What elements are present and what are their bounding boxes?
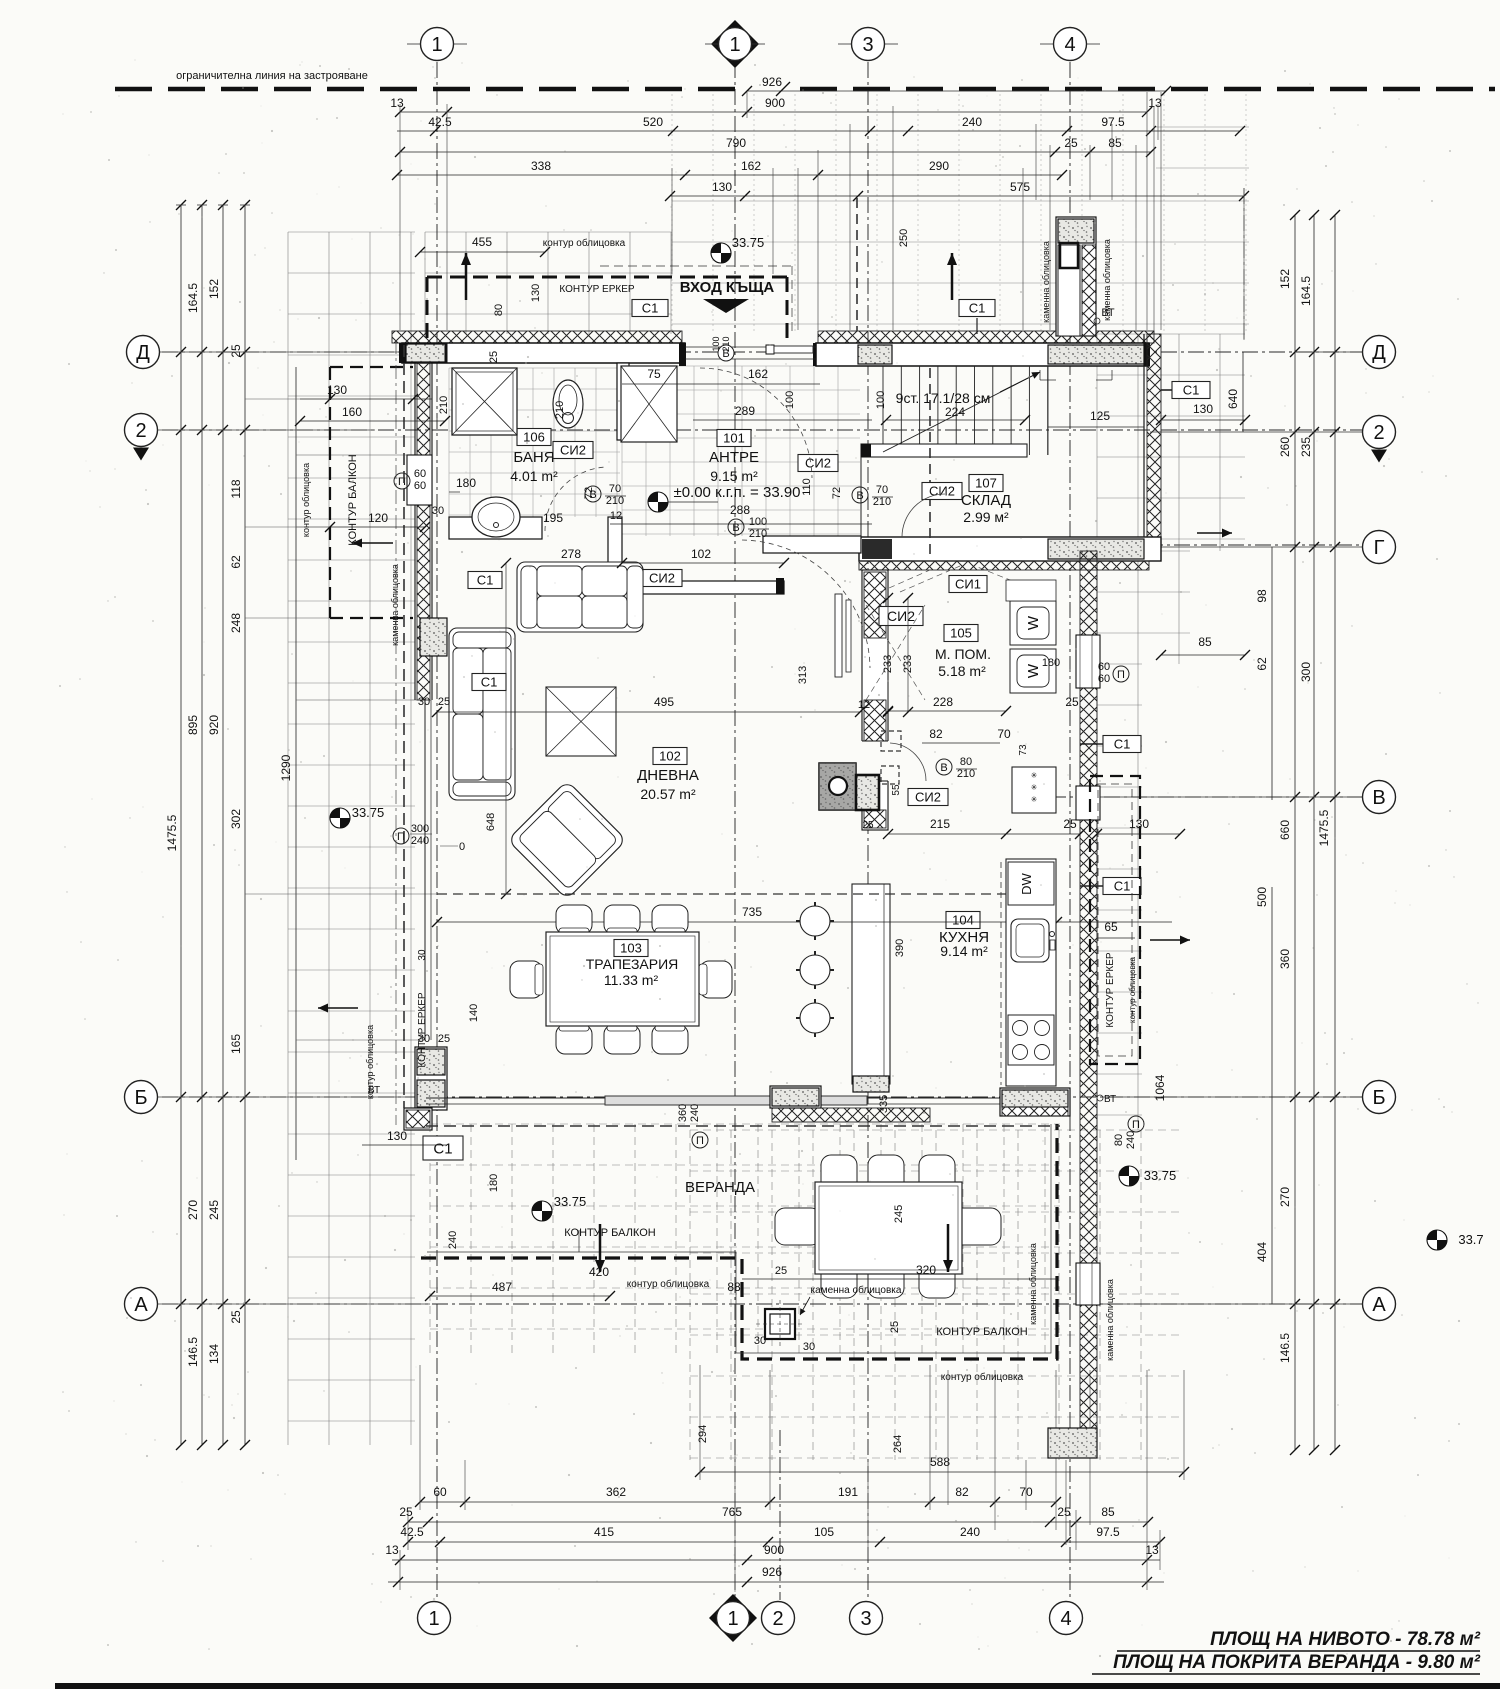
svg-text:240: 240 [960, 1525, 980, 1539]
svg-text:А: А [1372, 1294, 1386, 1316]
svg-text:2.99 м²: 2.99 м² [963, 509, 1009, 525]
svg-text:895: 895 [186, 715, 200, 735]
svg-text:100: 100 [749, 516, 767, 528]
svg-text:25: 25 [488, 351, 500, 363]
svg-text:648: 648 [485, 813, 497, 831]
svg-text:каменна облицовка: каменна облицовка [1105, 1279, 1115, 1361]
svg-text:338: 338 [531, 159, 551, 173]
svg-text:335: 335 [878, 1095, 890, 1113]
svg-text:25: 25 [775, 1265, 787, 1277]
svg-text:300: 300 [411, 823, 429, 835]
svg-text:4.01 m²: 4.01 m² [510, 468, 558, 484]
svg-text:101: 101 [723, 431, 745, 446]
svg-text:415: 415 [594, 1525, 614, 1539]
svg-text:140: 140 [468, 1004, 480, 1022]
svg-text:DW: DW [1019, 872, 1034, 894]
svg-text:302: 302 [229, 809, 243, 829]
svg-text:210: 210 [438, 396, 450, 414]
svg-text:В: В [940, 762, 947, 774]
svg-text:228: 228 [933, 695, 953, 709]
svg-text:240: 240 [447, 1231, 459, 1249]
svg-text:C1: C1 [433, 1140, 452, 1157]
svg-text:C1: C1 [642, 301, 659, 316]
svg-text:118: 118 [229, 479, 243, 498]
svg-text:270: 270 [186, 1200, 200, 1220]
svg-text:80: 80 [960, 756, 972, 768]
svg-text:70: 70 [997, 727, 1011, 741]
svg-text:233: 233 [882, 655, 894, 673]
svg-text:9.14 m²: 9.14 m² [940, 943, 988, 959]
svg-text:42.5: 42.5 [400, 1525, 424, 1539]
svg-text:П: П [1132, 1119, 1140, 1131]
svg-text:300: 300 [1299, 662, 1313, 682]
svg-text:500: 500 [1255, 887, 1269, 907]
svg-text:каменна облицовка: каменна облицовка [1028, 1243, 1038, 1325]
svg-text:60: 60 [433, 1485, 447, 1499]
svg-text:60: 60 [1098, 673, 1110, 685]
svg-text:102: 102 [659, 749, 681, 764]
svg-text:✳: ✳ [1031, 783, 1038, 792]
svg-text:80: 80 [493, 304, 505, 316]
svg-text:88: 88 [727, 1280, 741, 1294]
svg-text:240: 240 [962, 115, 982, 129]
svg-text:КОНТУР БАЛКОН: КОНТУР БАЛКОН [347, 454, 359, 545]
svg-text:1: 1 [729, 34, 740, 56]
svg-text:4: 4 [1064, 34, 1075, 56]
svg-text:60: 60 [414, 468, 426, 480]
svg-text:520: 520 [643, 115, 663, 129]
svg-text:30: 30 [754, 1335, 766, 1347]
svg-text:СИ2: СИ2 [929, 484, 955, 499]
svg-text:103: 103 [620, 941, 642, 956]
svg-text:62: 62 [1255, 657, 1269, 671]
svg-text:ВХОД КЪЩА: ВХОД КЪЩА [680, 279, 775, 296]
svg-text:210: 210 [721, 336, 731, 351]
svg-text:25: 25 [889, 1321, 901, 1333]
svg-text:33.75: 33.75 [554, 1194, 587, 1209]
svg-text:100: 100 [875, 391, 887, 409]
svg-text:210: 210 [873, 496, 891, 508]
svg-text:660: 660 [1278, 820, 1292, 840]
svg-text:Б: Б [134, 1087, 147, 1109]
svg-text:25: 25 [438, 696, 450, 708]
svg-text:224: 224 [945, 405, 965, 419]
svg-text:404: 404 [1255, 1242, 1269, 1262]
svg-text:30: 30 [417, 949, 428, 961]
svg-text:1475.5: 1475.5 [1317, 809, 1331, 846]
svg-text:Г: Г [1374, 537, 1385, 559]
svg-text:100: 100 [711, 336, 721, 351]
svg-text:210: 210 [749, 528, 767, 540]
svg-text:25: 25 [1064, 136, 1078, 150]
svg-text:125: 125 [1090, 409, 1110, 423]
svg-text:640: 640 [1226, 389, 1240, 409]
svg-text:926: 926 [762, 75, 782, 89]
svg-text:72: 72 [831, 487, 843, 499]
svg-text:1: 1 [727, 1608, 738, 1630]
svg-text:30: 30 [432, 505, 444, 517]
svg-text:487: 487 [492, 1280, 512, 1294]
svg-text:313: 313 [797, 666, 809, 684]
svg-text:75: 75 [647, 367, 661, 381]
svg-text:C1: C1 [1183, 383, 1200, 398]
svg-text:каменна облицовка: каменна облицовка [390, 564, 400, 646]
svg-text:СКЛАД: СКЛАД [961, 492, 1011, 509]
svg-text:✳: ✳ [1031, 771, 1038, 780]
svg-text:130: 130 [712, 180, 732, 194]
svg-text:362: 362 [606, 1485, 626, 1499]
svg-text:289: 289 [735, 404, 755, 418]
svg-text:контур облицовка: контур облицовка [941, 1371, 1024, 1383]
svg-text:60: 60 [414, 480, 426, 492]
svg-text:C1: C1 [1114, 879, 1131, 894]
svg-text:25: 25 [399, 1505, 413, 1519]
svg-text:25: 25 [438, 1033, 450, 1045]
svg-text:588: 588 [930, 1455, 950, 1469]
svg-text:11.33 m²: 11.33 m² [604, 972, 659, 988]
svg-text:2: 2 [135, 420, 146, 442]
svg-text:12: 12 [858, 699, 870, 711]
svg-text:210: 210 [606, 495, 624, 507]
svg-text:82: 82 [955, 1485, 969, 1499]
svg-text:360: 360 [1278, 949, 1292, 969]
svg-text:СИ2: СИ2 [805, 456, 831, 471]
svg-text:КОНТУР БАЛКОН: КОНТУР БАЛКОН [936, 1326, 1027, 1338]
svg-text:70: 70 [609, 483, 621, 495]
svg-text:900: 900 [765, 96, 785, 110]
svg-text:120: 120 [368, 511, 388, 525]
svg-text:926: 926 [762, 1565, 782, 1579]
svg-text:ВТ: ВТ [1104, 1094, 1116, 1105]
svg-text:85: 85 [1108, 136, 1122, 150]
svg-text:контур облицовка: контур облицовка [543, 237, 626, 249]
svg-text:АНТРЕ: АНТРЕ [709, 449, 759, 466]
svg-text:195: 195 [543, 511, 563, 525]
svg-text:1: 1 [428, 1608, 439, 1630]
svg-text:БАНЯ: БАНЯ [513, 449, 554, 466]
svg-text:КОНТУР ЕРКЕР: КОНТУР ЕРКЕР [1105, 952, 1116, 1027]
svg-text:104: 104 [952, 913, 974, 928]
svg-text:164.5: 164.5 [1299, 276, 1313, 306]
svg-text:СИ2: СИ2 [887, 608, 915, 624]
svg-text:790: 790 [726, 136, 746, 150]
svg-text:82: 82 [929, 727, 943, 741]
svg-text:210: 210 [957, 768, 975, 780]
svg-text:97.5: 97.5 [1096, 1525, 1120, 1539]
svg-text:20.57 m²: 20.57 m² [640, 786, 696, 802]
svg-text:СИ1: СИ1 [955, 577, 981, 592]
svg-text:130: 130 [530, 284, 542, 302]
svg-text:КОНТУР ЕРКЕР: КОНТУР ЕРКЕР [417, 992, 428, 1067]
svg-text:98: 98 [1255, 589, 1269, 603]
svg-text:W: W [1025, 663, 1042, 678]
svg-text:13: 13 [1145, 1543, 1159, 1557]
svg-text:3: 3 [862, 34, 873, 56]
svg-text:264: 264 [892, 1435, 904, 1453]
svg-text:C1: C1 [969, 301, 986, 316]
svg-text:270: 270 [1278, 1187, 1292, 1207]
svg-text:73: 73 [1018, 744, 1029, 756]
svg-text:100: 100 [784, 391, 796, 409]
svg-text:146.5: 146.5 [186, 1337, 200, 1367]
svg-text:165: 165 [229, 1034, 243, 1054]
svg-text:294: 294 [697, 1425, 709, 1443]
svg-text:260: 260 [1278, 437, 1292, 457]
svg-text:60: 60 [1098, 661, 1110, 673]
svg-text:110: 110 [801, 478, 813, 496]
svg-text:25: 25 [1063, 817, 1077, 831]
svg-text:13: 13 [390, 96, 404, 110]
svg-text:5.18 m²: 5.18 m² [938, 663, 986, 679]
svg-text:П: П [1117, 669, 1125, 681]
svg-text:130: 130 [327, 383, 347, 397]
svg-text:4: 4 [1060, 1608, 1071, 1630]
svg-text:164.5: 164.5 [186, 283, 200, 313]
svg-text:СИ2: СИ2 [649, 571, 675, 586]
svg-text:240: 240 [689, 1104, 701, 1122]
svg-text:210: 210 [554, 401, 566, 419]
svg-text:162: 162 [741, 159, 761, 173]
svg-text:495: 495 [654, 695, 674, 709]
svg-text:162: 162 [748, 367, 768, 381]
svg-text:920: 920 [207, 715, 221, 735]
svg-text:9.15 m²: 9.15 m² [710, 468, 758, 484]
svg-text:130: 130 [387, 1129, 407, 1143]
svg-text:КОНТУР ЕРКЕР: КОНТУР ЕРКЕР [559, 284, 634, 295]
svg-text:235: 235 [1299, 437, 1313, 457]
svg-text:160: 160 [342, 405, 362, 419]
svg-text:СИ2: СИ2 [560, 443, 586, 458]
svg-text:1: 1 [431, 34, 442, 56]
svg-text:0: 0 [459, 841, 465, 853]
svg-text:180: 180 [488, 1174, 500, 1192]
svg-text:215: 215 [930, 817, 950, 831]
svg-text:245: 245 [893, 1205, 905, 1223]
svg-text:2: 2 [772, 1608, 783, 1630]
svg-text:СИ2: СИ2 [915, 790, 941, 805]
svg-text:2: 2 [1373, 422, 1384, 444]
svg-text:33.75: 33.75 [352, 805, 385, 820]
svg-text:288: 288 [730, 503, 750, 517]
svg-text:152: 152 [207, 279, 221, 299]
svg-text:33.7: 33.7 [1458, 1232, 1483, 1247]
svg-text:85: 85 [1101, 1505, 1115, 1519]
svg-text:55: 55 [891, 784, 902, 796]
svg-text:ограничителна линия на застроя: ограничителна линия на застрояване [176, 70, 368, 82]
svg-text:320: 320 [916, 1263, 936, 1277]
svg-text:900: 900 [764, 1543, 784, 1557]
svg-text:А: А [134, 1294, 148, 1316]
svg-text:233: 233 [902, 655, 914, 673]
svg-text:420: 420 [589, 1265, 609, 1279]
svg-text:ПЛОЩ НА ПОКРИТА ВЕРАНДА - 9.80: ПЛОЩ НА ПОКРИТА ВЕРАНДА - 9.80 м² [1113, 1652, 1481, 1673]
svg-text:33.75: 33.75 [732, 235, 765, 250]
svg-text:180: 180 [1042, 657, 1060, 669]
svg-text:107: 107 [975, 476, 997, 491]
svg-text:Б: Б [1372, 1087, 1385, 1109]
svg-text:735: 735 [742, 905, 762, 919]
svg-text:C1: C1 [477, 573, 494, 588]
svg-text:W: W [1025, 615, 1042, 630]
svg-text:контур облицовка: контур облицовка [627, 1278, 710, 1290]
svg-text:каменна облицовка: каменна облицовка [811, 1284, 902, 1296]
svg-text:248: 248 [229, 613, 243, 633]
svg-text:290: 290 [929, 159, 949, 173]
svg-text:180: 180 [456, 476, 476, 490]
svg-text:191: 191 [838, 1485, 858, 1499]
svg-text:130: 130 [1193, 402, 1213, 416]
svg-text:102: 102 [691, 547, 711, 561]
svg-text:65: 65 [1104, 920, 1118, 934]
svg-text:В: В [1372, 787, 1385, 809]
svg-text:ТРАПЕЗАРИЯ: ТРАПЕЗАРИЯ [586, 956, 679, 972]
svg-text:25: 25 [229, 1310, 243, 1324]
svg-text:C1: C1 [1114, 737, 1131, 752]
svg-text:240: 240 [411, 835, 429, 847]
svg-text:1290: 1290 [279, 754, 293, 781]
svg-text:245: 245 [207, 1200, 221, 1220]
svg-text:9ст. 17.1/28 см: 9ст. 17.1/28 см [896, 390, 991, 406]
svg-text:±0.00 к.г.п. = 33.90: ±0.00 к.г.п. = 33.90 [673, 484, 800, 501]
svg-text:контур облицовка: контур облицовка [301, 463, 311, 537]
svg-text:240: 240 [1125, 1131, 1137, 1149]
svg-text:ВТ: ВТ [1101, 307, 1115, 319]
svg-text:455: 455 [472, 235, 492, 249]
svg-text:97.5: 97.5 [1101, 115, 1125, 129]
svg-text:105: 105 [950, 626, 972, 641]
svg-text:П: П [398, 476, 406, 488]
svg-text:П: П [696, 1135, 704, 1147]
svg-text:105: 105 [814, 1525, 834, 1539]
svg-text:33.75: 33.75 [1144, 1168, 1177, 1183]
svg-text:Д: Д [1372, 342, 1386, 364]
svg-text:1475.5: 1475.5 [165, 814, 179, 851]
svg-text:13: 13 [385, 1543, 399, 1557]
svg-text:25: 25 [862, 820, 874, 831]
svg-text:85: 85 [1198, 635, 1212, 649]
svg-text:Д: Д [136, 342, 150, 364]
svg-text:каменна облицовка: каменна облицовка [1041, 241, 1051, 323]
svg-text:ВЕРАНДА: ВЕРАНДА [685, 1179, 755, 1196]
svg-text:152: 152 [1278, 269, 1292, 289]
svg-text:ВТ: ВТ [368, 1085, 380, 1096]
svg-text:250: 250 [898, 229, 910, 247]
svg-text:765: 765 [722, 1505, 742, 1519]
svg-text:C1: C1 [481, 675, 498, 690]
svg-text:80: 80 [1113, 1134, 1125, 1146]
svg-text:25: 25 [1057, 1505, 1071, 1519]
svg-text:ДНЕВНА: ДНЕВНА [637, 767, 699, 784]
svg-text:360: 360 [677, 1104, 689, 1122]
svg-text:70: 70 [876, 484, 888, 496]
svg-text:62: 62 [229, 555, 243, 569]
svg-text:575: 575 [1010, 180, 1030, 194]
svg-text:146.5: 146.5 [1278, 1333, 1292, 1363]
svg-text:25: 25 [1065, 695, 1079, 709]
svg-text:М. ПОМ.: М. ПОМ. [935, 646, 991, 662]
svg-text:72: 72 [583, 487, 595, 499]
svg-text:В: В [856, 490, 863, 502]
svg-text:✳: ✳ [1031, 795, 1038, 804]
svg-text:42.5: 42.5 [428, 115, 452, 129]
svg-text:30: 30 [418, 696, 430, 708]
svg-text:контур облицовка: контур облицовка [1128, 956, 1137, 1022]
svg-text:КОНТУР БАЛКОН: КОНТУР БАЛКОН [564, 1227, 655, 1239]
svg-text:390: 390 [894, 939, 906, 957]
svg-text:ПЛОЩ НА НИВОТО - 78.78 м²: ПЛОЩ НА НИВОТО - 78.78 м² [1210, 1629, 1481, 1650]
svg-text:30: 30 [803, 1341, 815, 1353]
svg-text:3: 3 [860, 1608, 871, 1630]
svg-text:12: 12 [610, 510, 622, 522]
svg-text:278: 278 [561, 547, 581, 561]
svg-text:134: 134 [207, 1344, 221, 1364]
svg-text:25: 25 [229, 344, 243, 358]
